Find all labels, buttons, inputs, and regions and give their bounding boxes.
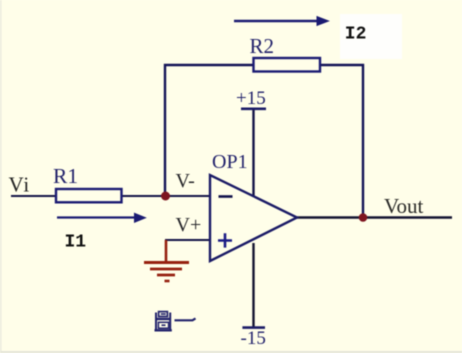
caption figure-one glyph 一 [175,318,196,320]
node junction dot at V- [161,192,170,201]
svg-text:R1: R1 [53,164,78,188]
ground [144,240,189,281]
op-amp plus input symbol [218,233,232,247]
op-amp minus input symbol [219,195,233,198]
current arrow I1 [57,216,137,218]
svg-text:I1: I1 [65,232,87,252]
caption figure-one glyph 圖 [155,312,172,331]
wire input Vi to V- [11,195,210,197]
svg-text:OP1: OP1 [212,151,248,173]
label I2 white box [340,14,402,59]
svg-text:I2: I2 [345,24,367,44]
svg-text:Vi: Vi [9,173,31,197]
wire feedback loop [165,65,363,217]
power +15 bar [241,108,266,111]
wire +15 stem [252,109,254,196]
svg-text:-15: -15 [241,328,266,349]
op-amp U1 triangle [210,175,297,261]
svg-text:Vout: Vout [384,194,423,218]
svg-text:R2: R2 [250,34,275,58]
resistor R2 [254,58,321,72]
svg-text:V+: V+ [176,214,202,236]
node junction dot at output [359,213,368,222]
power -15 bar [242,326,265,329]
resistor R1 [56,189,122,202]
wire -15 stem [252,243,254,327]
current arrow I2 [234,20,319,22]
svg-text:+15: +15 [236,88,266,109]
wire output [297,216,452,218]
wire V+ input [165,239,210,241]
svg-text:V-: V- [176,170,195,192]
